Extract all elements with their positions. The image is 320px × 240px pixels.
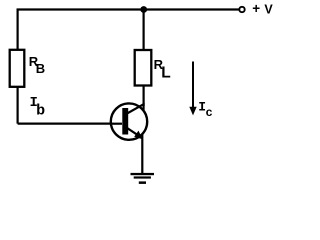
svg-text:V: V bbox=[264, 3, 273, 17]
svg-text:+: + bbox=[252, 1, 260, 16]
svg-text:B: B bbox=[36, 61, 45, 76]
svg-text:c: c bbox=[206, 106, 213, 120]
svg-text:L: L bbox=[161, 65, 170, 82]
svg-text:b: b bbox=[36, 103, 45, 120]
